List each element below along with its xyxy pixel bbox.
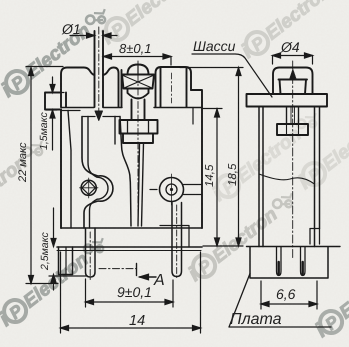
pin 2 through base [172,203,182,277]
screw head band [122,75,154,89]
hole boss circle [160,178,184,202]
nut [277,124,308,135]
left body edge [60,110,62,229]
right tower inner wall [160,68,162,108]
chassis flange [247,94,328,107]
pin tip inside body [95,111,103,121]
left tower outline [61,68,95,108]
right shoulder step [191,90,202,228]
dim 18.5 [180,68,243,247]
inner body wall left [68,111,71,229]
side body walls [259,107,263,247]
dim 14.5 [203,109,223,247]
screw neck [128,89,149,99]
screw shaft below flange [287,107,299,125]
inner wall under right tower [192,108,194,125]
break wave line [259,174,315,184]
screw slot dart [289,69,296,80]
pin terminal top [94,31,96,107]
dim 1.5 max [46,77,64,150]
board block [250,247,328,278]
leader chassis [192,54,272,97]
base plate [61,227,202,229]
clamp lower band [123,134,153,144]
view arrow A [137,264,157,278]
left tower inner wall [65,93,67,108]
dim 8 +-0.1 [104,57,172,66]
shoulder line [61,107,202,109]
right tower outline [156,67,192,107]
dim 22 max [26,67,63,284]
left foot tab [59,247,73,275]
pin 1 through base [86,228,96,277]
dim 2.5 max [49,208,86,290]
contact tongue [138,143,144,226]
leader board [229,274,331,328]
screw cap M1 [128,65,149,75]
dim diameter 1 [70,35,117,37]
contact hole with screw diamond [81,180,96,195]
screw head profile [279,80,308,95]
dim 14 [61,252,201,333]
dome cover [273,68,313,95]
dim 9 +-0.1 [86,279,174,307]
pin centerline [98,27,100,112]
clamp washer [120,120,158,134]
centerline [292,61,294,258]
S-spring contact left [82,117,113,229]
S-spring contact right [114,117,116,145]
screw centerline [137,61,139,226]
contact pocket top [82,116,120,118]
board pin holes [277,247,282,276]
contact strip hook [310,229,320,245]
screw shaft [132,100,145,121]
dim diameter 4 [273,56,313,65]
mounting lip left [45,93,61,110]
dim 6.6 [261,281,317,309]
